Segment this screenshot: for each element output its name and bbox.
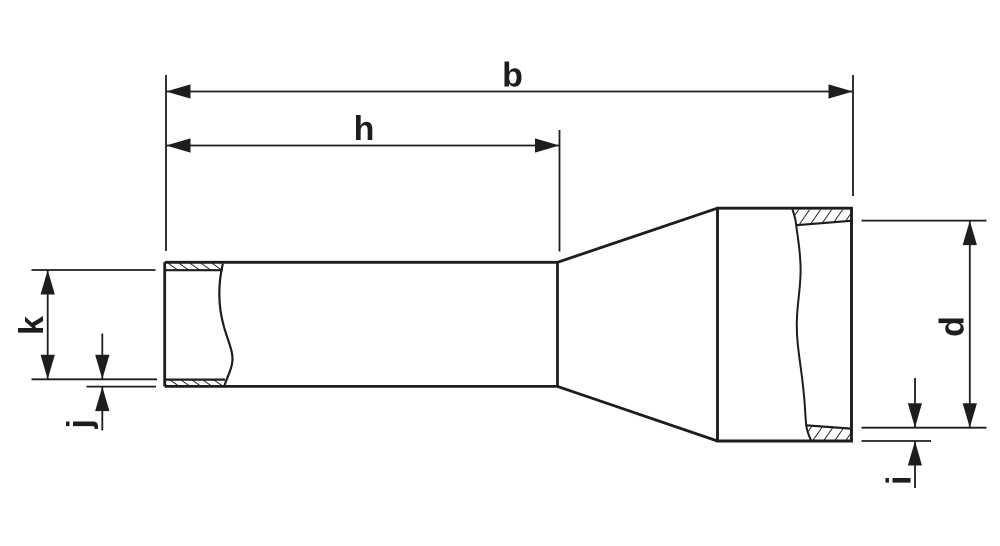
dimension d top extension line — [862, 220, 987, 222]
collar top inner cone line — [796, 221, 851, 225]
dimension j lower arrowhead — [95, 387, 109, 412]
sleeve break wavy line — [219, 264, 232, 386]
sleeve top wall cut hatch — [166, 263, 223, 269]
svg-text:k: k — [13, 316, 51, 335]
dimension h line — [166, 145, 560, 147]
dimension b left arrowhead — [166, 84, 191, 98]
svg-text:h: h — [354, 110, 375, 148]
collar bottom inner cone line — [806, 425, 851, 428]
dimension i upper line — [914, 378, 916, 428]
collar top wall cut hatch — [793, 210, 851, 225]
dimension k line — [47, 270, 49, 379]
dimension i lower line — [914, 441, 916, 488]
dimension j upper line — [101, 334, 103, 380]
collar outline — [718, 208, 852, 441]
dimension b right extension line — [852, 75, 854, 196]
dimension j lower line — [101, 387, 103, 431]
funnel cone bottom edge — [558, 386, 718, 441]
dimension d bottom arrowhead — [963, 403, 977, 428]
dimension j extension line — [87, 386, 157, 388]
dimension d line — [969, 221, 971, 428]
dimension k top arrowhead — [41, 270, 55, 295]
dimension h right extension line — [559, 130, 561, 252]
funnel cone top edge — [558, 208, 718, 262]
svg-text:b: b — [502, 57, 523, 95]
dimension b line — [166, 91, 853, 93]
dimension i upper arrowhead — [908, 403, 922, 428]
dimension k bottom arrowhead — [41, 355, 55, 380]
ferrule sleeve tube outline — [165, 262, 558, 386]
sleeve bottom inner bore line — [166, 379, 225, 381]
dimension b right arrowhead — [829, 84, 854, 98]
svg-text:j: j — [61, 419, 99, 429]
dimension h right arrowhead — [535, 138, 560, 152]
dimension h left arrowhead — [166, 138, 191, 152]
dimension j upper arrowhead — [95, 355, 109, 380]
collar break wavy line — [793, 210, 811, 440]
sleeve top inner bore line — [166, 269, 223, 271]
sleeve bottom wall cut hatch — [166, 380, 225, 385]
svg-text:i: i — [881, 476, 919, 485]
dimension i lower arrowhead — [908, 441, 922, 466]
dimension i extension line — [862, 440, 932, 442]
svg-text:d: d — [934, 316, 972, 337]
dimension k top extension line — [32, 269, 156, 271]
dimension b left extension line — [165, 75, 167, 251]
dimension k bottom extension line — [32, 378, 158, 380]
collar bottom wall cut hatch — [806, 425, 850, 439]
dimension d bottom extension line — [862, 427, 987, 429]
dimension d top arrowhead — [963, 221, 977, 246]
